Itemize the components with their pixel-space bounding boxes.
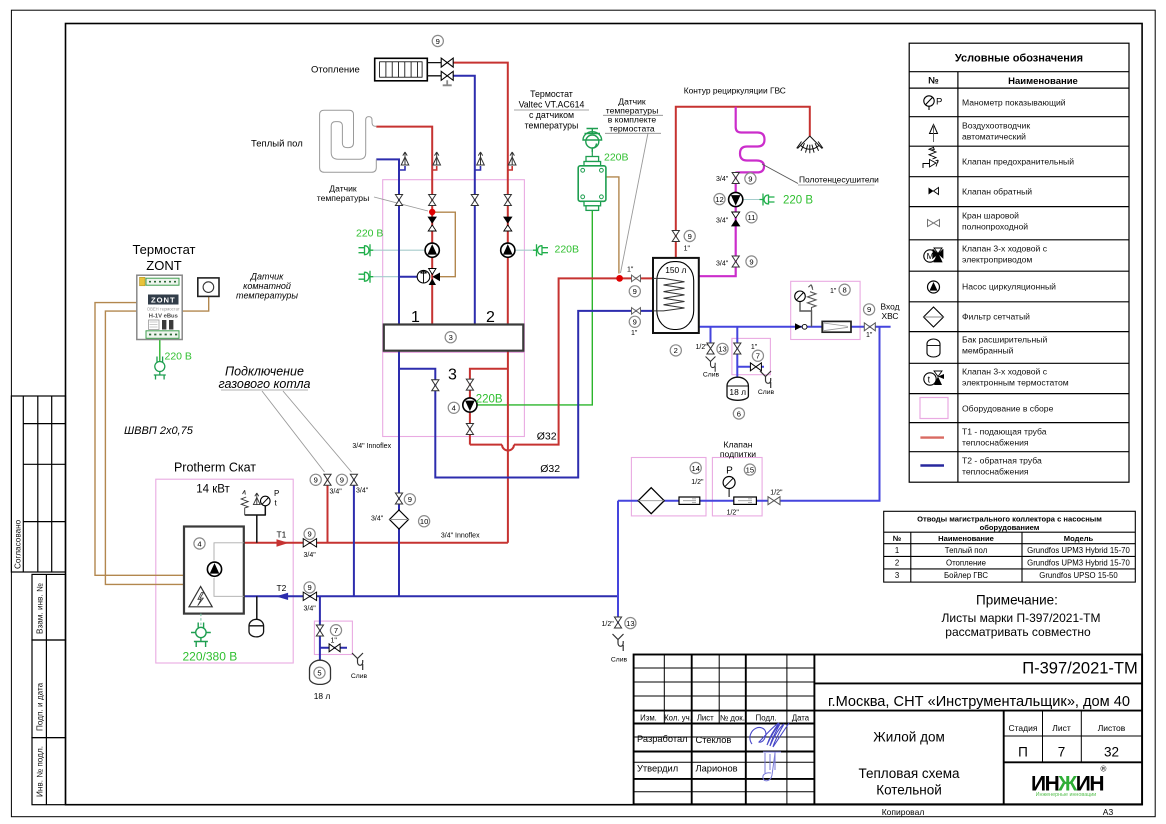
pipe makeup line [618, 327, 880, 501]
svg-text:мембранный: мембранный [962, 346, 1014, 356]
pipe tank drain stub [710, 327, 712, 343]
svg-text:3: 3 [449, 333, 453, 342]
sensor dot on pipe 1 [429, 209, 435, 215]
svg-text:Бойлер ГВС: Бойлер ГВС [944, 571, 988, 580]
svg-text:220В: 220В [476, 394, 503, 406]
pump 2 heating [501, 243, 515, 257]
svg-text:А3: А3 [1103, 807, 1114, 817]
legend symbol: бак расширительный [927, 339, 940, 357]
svg-text:Слив: Слив [351, 673, 368, 680]
svg-text:1/2": 1/2" [691, 479, 704, 486]
node 9 tank red [629, 286, 640, 297]
svg-text:рассматривать совместно: рассматривать совместно [945, 625, 1091, 639]
svg-text:H-1V eBus: H-1V eBus [149, 314, 178, 320]
svg-text:Подп. и дата: Подп. и дата [36, 682, 45, 731]
group 3 valves and pump [466, 379, 473, 390]
label Датчик температуры в комплекте термостата [606, 97, 659, 134]
svg-text:9: 9 [408, 495, 412, 504]
svg-text:3/4": 3/4" [371, 516, 384, 523]
node 2 [670, 345, 681, 356]
pale wire plug to pump 1 [374, 249, 425, 251]
tan wire ZONT to room sensor [182, 296, 209, 311]
svg-text:1/2": 1/2" [770, 490, 783, 497]
svg-text:5: 5 [317, 669, 321, 678]
svg-text:150 л: 150 л [665, 265, 686, 275]
svg-text:2: 2 [895, 558, 899, 567]
node 11 [746, 212, 757, 223]
svg-text:3/4": 3/4" [330, 489, 343, 496]
towel valve top [732, 173, 739, 184]
valve 18l branch [734, 343, 741, 354]
check valve pipe 1 [428, 217, 436, 231]
pipe tank top to recirculation loop [676, 107, 810, 258]
pipe branch to 3-way valve [399, 276, 417, 278]
T1 arrow [277, 539, 289, 547]
svg-text:Кран шаровой: Кран шаровой [962, 211, 1019, 221]
legend symbol: фильтр сетчатый [924, 307, 944, 327]
svg-text:18 л: 18 л [314, 691, 331, 701]
svg-text:Подл.: Подл. [756, 713, 777, 722]
boiler drain branch valve [316, 625, 323, 636]
tan wire valtec thermostat to pipe sensor [606, 177, 619, 274]
svg-text:Полотенцесушители: Полотенцесушители [799, 175, 879, 185]
pipe group 3 return [399, 311, 653, 478]
node 5 [314, 667, 325, 678]
legend symbol: Т1 line [920, 436, 944, 438]
svg-text:Термостат: Термостат [530, 89, 573, 99]
svg-text:Оборудование в сборе: Оборудование в сборе [962, 404, 1054, 414]
safety group 8 [800, 285, 816, 327]
svg-text:9: 9 [436, 37, 440, 46]
legend symbol: клапан обратный [929, 188, 939, 195]
left stamp: Инв. № подл. box [32, 738, 66, 805]
svg-text:Фильтр сетчатый: Фильтр сетчатый [962, 312, 1030, 322]
towel warmer serpentine [736, 123, 765, 173]
valve on tank top pipe [672, 231, 679, 242]
svg-text:8: 8 [842, 286, 846, 295]
svg-text:10: 10 [420, 517, 428, 526]
svg-text:Листов: Листов [1098, 723, 1126, 733]
pipe DHW group 3 loop [470, 278, 653, 444]
pump 1 floor heating [425, 243, 439, 257]
svg-text:1": 1" [331, 638, 338, 645]
svg-text:Взам. инв. №: Взам. инв. № [36, 583, 45, 634]
svg-text:Жилой дом: Жилой дом [873, 730, 945, 745]
svg-text:Инв. № подл.: Инв. № подл. [36, 746, 45, 797]
valve on collector return [395, 493, 402, 504]
svg-text:3/4": 3/4" [356, 488, 369, 495]
svg-text:Бак расширительный: Бак расширительный [962, 335, 1047, 345]
pipe collector return down [398, 351, 400, 597]
drain symbol 13a [706, 357, 716, 372]
pump 4 DHW [463, 398, 477, 412]
svg-text:3/4": 3/4" [716, 261, 729, 268]
pipe hop over collector pipe [502, 445, 514, 451]
tan wire ZONT to boiler B [105, 311, 184, 584]
svg-text:Р: Р [936, 97, 942, 108]
grey leader: датчик температуры to sensor dot [374, 197, 428, 211]
node 4 boiler [194, 538, 205, 549]
left stamp: Согласовано section [11, 396, 65, 805]
tank 150l [653, 258, 699, 333]
svg-text:газового котла: газового котла [219, 377, 311, 391]
pale wire pump 12 to plug [743, 199, 760, 201]
makeup reducer 14 [679, 497, 700, 504]
svg-text:1": 1" [631, 330, 638, 337]
svg-text:Ø32: Ø32 [537, 431, 557, 443]
room temperature sensor [198, 278, 219, 297]
boiler drain bowtie [329, 644, 340, 652]
green wire valtec to pump 4 [477, 208, 592, 405]
svg-text:Теплый пол: Теплый пол [945, 546, 988, 555]
svg-text:3/4": 3/4" [716, 176, 729, 183]
boiler electric triangle [189, 587, 212, 607]
svg-text:14 кВт: 14 кВт [196, 484, 230, 496]
svg-text:№: № [893, 534, 901, 543]
assembly box group 3 [383, 352, 525, 436]
svg-text:Теплый пол: Теплый пол [251, 139, 303, 150]
assembly box boiler [156, 479, 293, 663]
svg-text:температуры: температуры [236, 291, 298, 301]
svg-text:Дата: Дата [792, 713, 810, 722]
green 220V labels [165, 152, 814, 664]
svg-text:с датчиком: с датчиком [529, 110, 574, 120]
svg-text:13: 13 [718, 345, 726, 354]
node 15 [744, 464, 755, 475]
manometer 8 [795, 291, 806, 302]
left stamp: Взам. инв. № box [32, 574, 66, 640]
svg-text:температуры: температуры [525, 121, 579, 131]
shower symbol [797, 136, 823, 153]
pale wire plug to 3-way valve [374, 276, 417, 278]
svg-text:Ларионов: Ларионов [696, 764, 738, 774]
svg-text:Клапан обратный: Клапан обратный [962, 187, 1032, 197]
svg-text:3: 3 [448, 367, 457, 384]
node 13b [625, 618, 636, 629]
svg-text:18 л: 18 л [729, 387, 746, 397]
tank outlet valve blue [632, 308, 641, 315]
node 3 [445, 332, 456, 343]
floor heating coil [320, 110, 377, 172]
svg-text:П-397/2021-ТМ: П-397/2021-ТМ [1022, 660, 1138, 678]
svg-text:1: 1 [411, 309, 420, 326]
svg-text:Вход: Вход [881, 302, 900, 312]
svg-text:Тепловая схема: Тепловая схема [858, 766, 960, 781]
svg-text:3: 3 [895, 571, 899, 580]
assembly box 14 [631, 458, 706, 516]
T2 valve [303, 592, 316, 600]
drain valve 18l [750, 363, 761, 371]
gas stub valves [324, 474, 331, 485]
svg-text:Насос циркуляционный: Насос циркуляционный [962, 282, 1056, 292]
node 7 right [752, 350, 763, 361]
node 9 tank top [684, 230, 695, 241]
boiler drain symbol [352, 653, 363, 670]
svg-text:4: 4 [197, 539, 201, 548]
svg-text:Разработал: Разработал [637, 734, 688, 744]
legend symbol: кран шаровой [928, 220, 940, 227]
node 4 group3 [448, 402, 459, 413]
radiator return valve with drain [441, 71, 453, 85]
svg-text:Манометр показывающий: Манометр показывающий [962, 98, 1066, 108]
svg-text:Лист: Лист [1052, 723, 1071, 733]
pipe 18l tank branch [737, 327, 764, 377]
svg-text:электроприводом: электроприводом [962, 255, 1032, 265]
svg-text:Grundfos UPM3 Hybrid 15-70: Grundfos UPM3 Hybrid 15-70 [1027, 558, 1130, 567]
node 9 top [432, 35, 443, 46]
svg-text:Слив: Слив [703, 372, 720, 379]
svg-text:9: 9 [688, 232, 692, 241]
svg-text:Ø32: Ø32 [540, 463, 560, 475]
svg-text:220/380 В: 220/380 В [183, 650, 238, 664]
svg-text:Инженерные инновации: Инженерные инновации [1036, 792, 1097, 798]
air vent 3 [475, 152, 485, 170]
svg-text:6: 6 [737, 409, 741, 418]
node 9 gas red [310, 474, 321, 485]
node 9 collector return [404, 494, 415, 505]
drain valve 13a [707, 343, 714, 354]
svg-text:№ док.: № док. [720, 713, 745, 722]
grey leader to Полотенцесушители [762, 164, 798, 184]
svg-text:1": 1" [627, 267, 634, 274]
node 13a [717, 343, 728, 354]
grey leader: датчик в комплекте to dot [621, 133, 649, 273]
pipe tank to towel warmer riser [699, 107, 736, 276]
svg-text:9: 9 [867, 305, 871, 314]
svg-text:9: 9 [307, 530, 311, 539]
svg-text:Модель: Модель [1064, 534, 1094, 543]
pipe radiator return [453, 76, 475, 325]
svg-text:ZONT: ZONT [151, 295, 176, 304]
expansion tank 5 [310, 660, 331, 684]
T1 valve [303, 539, 316, 547]
svg-text:32: 32 [1104, 745, 1119, 760]
svg-text:Наименование: Наименование [938, 534, 994, 543]
makeup manometer 15 [723, 466, 735, 498]
svg-text:3/4": 3/4" [716, 218, 729, 225]
svg-text:Листы марки П-397/2021-ТМ: Листы марки П-397/2021-ТМ [942, 611, 1101, 625]
node 9 gas blue [336, 474, 347, 485]
node 9 T1 [304, 528, 315, 539]
svg-text:Лист: Лист [697, 713, 714, 722]
svg-text:Р: Р [274, 489, 279, 498]
svg-text:9: 9 [314, 476, 318, 485]
label Слив texts [351, 372, 775, 681]
svg-text:ШВВП 2х0,75: ШВВП 2х0,75 [124, 425, 194, 437]
svg-text:теплоснабжения: теплоснабжения [962, 438, 1029, 448]
svg-text:13: 13 [626, 619, 634, 628]
svg-text:1/2": 1/2" [727, 510, 740, 517]
legend symbol: клапан предохранительный [923, 147, 938, 168]
node 10 filter [419, 516, 430, 527]
svg-text:автоматический: автоматический [962, 132, 1026, 142]
boiler manometer [261, 489, 280, 508]
boiler expansion vessel [249, 619, 264, 637]
pump 12 [729, 192, 743, 206]
check valve pipe 2 [504, 217, 512, 231]
pipe gas boiler red stub [327, 475, 329, 543]
svg-text:14: 14 [691, 464, 699, 473]
pipe gas boiler blue stub [353, 475, 355, 597]
svg-text:15: 15 [746, 465, 754, 474]
pipe T1 boiler line [244, 542, 508, 544]
svg-text:Воздухоотводчик: Воздухоотводчик [962, 121, 1030, 131]
air vent 1 [399, 152, 409, 170]
svg-text:теплоснабжения: теплоснабжения [962, 467, 1029, 477]
pipe floor heating supply [376, 127, 432, 325]
node 8 [839, 284, 850, 295]
assembly box 7 near 18l tank [732, 338, 771, 374]
legend symbol: оборудование в сборе [920, 398, 948, 419]
svg-text:Protherm Скат: Protherm Скат [174, 461, 256, 475]
radiator Отопление [375, 58, 428, 81]
boiler black pipe to safety group and vessel [245, 506, 266, 620]
legend symbol: манометр [924, 96, 943, 110]
air vent 4 [508, 152, 516, 170]
node 9 towel top [745, 173, 756, 184]
logo ИНЖИН [1031, 765, 1107, 799]
check valve 11 [732, 212, 740, 226]
svg-text:3/4": 3/4" [304, 552, 317, 559]
left stamp: Подп. и дата box [32, 640, 66, 738]
svg-text:Отопление: Отопление [311, 65, 360, 76]
svg-text:1/2": 1/2" [696, 344, 709, 351]
pipe boiler expansion tank branch [320, 596, 347, 660]
svg-text:1/2": 1/2" [602, 621, 615, 628]
svg-text:9: 9 [749, 257, 753, 266]
svg-text:Контур рециркуляции ГВС: Контур рециркуляции ГВС [684, 86, 786, 96]
boiler 380V plug [191, 623, 211, 648]
legend symbol: клапан 3-х ходовой с электронным термостатом [924, 371, 944, 385]
svg-text:220В: 220В [604, 152, 629, 164]
air vent 2 [432, 152, 440, 170]
assembly box group 1-2 [383, 180, 525, 353]
svg-text:подпитки: подпитки [720, 449, 756, 459]
tan wire mixing valve to sensor dot [434, 212, 455, 277]
svg-text:Т2: Т2 [277, 583, 287, 593]
plug for pump 12 [760, 194, 775, 206]
pale wire pump 2 to plug [515, 249, 533, 251]
assembly box 7 near boiler [314, 621, 352, 654]
svg-text:Клапан 3-х ходовой с: Клапан 3-х ходовой с [962, 244, 1048, 254]
legend symbol: Т2 line [920, 464, 944, 466]
tank 18l right [727, 377, 748, 400]
svg-text:7: 7 [334, 626, 338, 635]
plug for pump 2 [533, 244, 548, 256]
signature scribble [750, 723, 789, 747]
svg-text:1: 1 [895, 546, 899, 555]
makeup drain valve 13 [614, 617, 621, 628]
svg-text:П: П [1018, 745, 1028, 760]
svg-text:№: № [928, 76, 939, 87]
ZONT 220V plug [154, 357, 166, 380]
svg-text:Котельной: Котельной [876, 783, 942, 798]
svg-text:г.Москва, СНТ «Инструментальщи: г.Москва, СНТ «Инструментальщик», дом 40 [828, 694, 1130, 710]
svg-text:220В: 220В [555, 244, 580, 256]
svg-text:2: 2 [486, 309, 495, 326]
valtec thermostat device [578, 129, 606, 211]
svg-text:1": 1" [866, 332, 873, 339]
node 9 tank blue [629, 316, 640, 327]
node 9 towel bottom [746, 256, 757, 267]
svg-text:9: 9 [633, 287, 637, 296]
svg-text:термостата: термостата [609, 124, 655, 134]
svg-text:Т1: Т1 [277, 530, 287, 540]
pipe T2 boiler line [244, 595, 618, 597]
assembly box 15 [712, 458, 762, 516]
svg-text:Условные обозначения: Условные обозначения [955, 53, 1083, 65]
svg-text:Примечание:: Примечание: [976, 593, 1058, 608]
svg-text:температуры: температуры [317, 193, 370, 203]
svg-text:Т2 - обратная труба: Т2 - обратная труба [962, 456, 1042, 466]
svg-text:полнопроходной: полнопроходной [962, 222, 1028, 232]
svg-text:3/4": 3/4" [304, 606, 317, 613]
svg-text:Кол. уч.: Кол. уч. [664, 713, 692, 722]
svg-text:1": 1" [684, 246, 691, 253]
tank inlet valve red [632, 275, 641, 282]
cold water valve [864, 323, 875, 331]
svg-text:4: 4 [452, 404, 456, 413]
valve group3 blue [432, 380, 439, 391]
svg-text:Grundfos UPM3 Hybrid 15-70: Grundfos UPM3 Hybrid 15-70 [1027, 546, 1130, 555]
svg-text:220 В: 220 В [165, 351, 192, 363]
svg-text:Копировал: Копировал [882, 807, 925, 817]
svg-text:Слив: Слив [611, 657, 628, 664]
svg-text:220 В: 220 В [356, 228, 383, 240]
legend symbol: клапан 3-х ходовой с электроприводом [924, 248, 943, 262]
ZONT device [137, 275, 182, 339]
node 9 T2 [304, 582, 315, 593]
boiler power cord [200, 614, 202, 628]
svg-text:комнатной: комнатной [243, 281, 291, 291]
check valve cold water [795, 323, 807, 330]
boiler pump [207, 562, 221, 576]
svg-text:Р: Р [726, 466, 733, 477]
svg-text:9: 9 [748, 174, 752, 183]
pipe cold water main [699, 326, 891, 328]
pipe floor heating return [376, 159, 399, 324]
svg-text:2: 2 [674, 346, 678, 355]
towel valve bottom [732, 256, 739, 267]
svg-text:7: 7 [756, 352, 760, 361]
svg-text:Клапан: Клапан [724, 440, 753, 450]
svg-text:Датчик: Датчик [250, 272, 285, 282]
pipe makeup down to drain [617, 501, 619, 628]
makeup drain symbol [613, 634, 624, 651]
drain symbol 18l [760, 371, 771, 388]
svg-text:Отопление: Отопление [946, 558, 986, 567]
label Подключение газового котла [219, 365, 311, 392]
makeup reducer 15 [734, 497, 757, 504]
svg-text:Наименование: Наименование [1008, 76, 1078, 87]
svg-text:12: 12 [715, 195, 723, 204]
svg-text:Слив: Слив [758, 389, 775, 396]
svg-text:1": 1" [751, 344, 758, 351]
svg-text:9: 9 [307, 583, 311, 592]
pipe radiator supply [453, 63, 508, 325]
svg-text:1": 1" [830, 288, 837, 295]
svg-text:Т1 - подающая труба: Т1 - подающая труба [962, 427, 1047, 437]
svg-text:Клапан предохранительный: Клапан предохранительный [962, 157, 1074, 167]
boiler box [184, 527, 244, 614]
node 7 boiler [330, 625, 341, 636]
svg-text:ZONT: ZONT [146, 258, 181, 273]
label Термостат Valtec [519, 89, 585, 131]
pipe collector to T1 junction [507, 351, 509, 543]
3-way mixing valve with thermostat [417, 269, 440, 286]
radiator supply valve [441, 58, 453, 67]
node 6 [733, 408, 744, 419]
